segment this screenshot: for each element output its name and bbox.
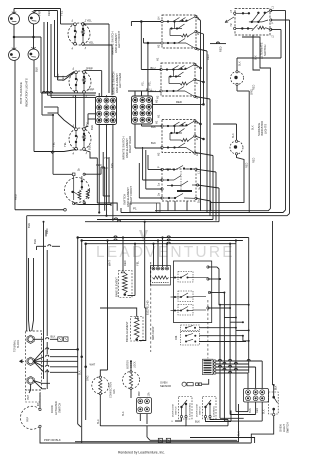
wire S3 area v3 <box>108 157 110 203</box>
wire erc t3 <box>210 292 226 318</box>
wire bake feed <box>122 236 124 270</box>
wire into block1 c <box>51 96 96 98</box>
wire light1 down right <box>237 86 249 213</box>
svg-text:Ø: Ø <box>196 33 200 35</box>
bake element <box>119 270 133 298</box>
label OVEN LIGHT SWITCH <box>278 422 289 433</box>
element switch box LH (left rear) <box>161 15 197 50</box>
wire block1 col3 down <box>112 125 114 221</box>
svg-text:RIGHT REAR: RIGHT REAR <box>128 136 132 153</box>
indicator lamp right-rear hot-surface <box>28 46 39 60</box>
svg-text:RED: RED <box>176 100 182 104</box>
wire box2 P <box>195 80 205 84</box>
wire lamp D down <box>33 60 35 152</box>
label BLK <box>35 67 39 72</box>
wire box1 mid <box>196 32 205 106</box>
wire S4 right top stub <box>84 126 88 128</box>
wire cbr out2 <box>255 402 257 415</box>
wire broil feed right <box>144 221 146 308</box>
junction dots lamp bus <box>13 36 35 39</box>
labels box1 right <box>196 17 200 51</box>
svg-text:BLK: BLK <box>33 239 37 244</box>
wire YEL to S1 <box>61 9 76 25</box>
svg-text:DOOR: DOOR <box>50 405 54 413</box>
spacer <box>138 162 140 164</box>
door lock switch locked <box>203 397 217 420</box>
wire stubs block1 top <box>99 93 106 97</box>
svg-text:RED: RED <box>253 158 256 163</box>
connector block bottom right <box>244 389 269 403</box>
wire left down y441 <box>75 404 239 442</box>
svg-text:RED: RED <box>14 194 18 200</box>
arrow to alternate switch <box>225 17 234 23</box>
svg-text:PRP: PRP <box>89 88 95 92</box>
svg-text:YEL: YEL <box>142 81 145 86</box>
wire box1 L2 down <box>196 49 207 213</box>
wire BLK to box3 bottom <box>135 125 162 149</box>
wire relay feed d <box>166 243 168 267</box>
svg-text:P1: P1 <box>133 207 137 211</box>
labels TAN RED BLK <box>249 408 265 414</box>
svg-text:PRP OR BLK: PRP OR BLK <box>44 438 61 442</box>
spacer6 <box>149 439 151 441</box>
wires block2 top <box>128 91 148 96</box>
wire to box4 b <box>143 147 162 180</box>
wire into door switch <box>38 393 40 408</box>
wire sensor out <box>202 379 209 384</box>
wire box4 L1 down <box>196 169 216 220</box>
wire lamp B top <box>34 10 58 13</box>
wire S4 bottom right <box>84 150 97 158</box>
wire block1 col1 down <box>98 125 100 214</box>
labels YEL S1 <box>87 19 95 45</box>
dashed chassis line left <box>150 262 152 352</box>
connector squares pair bottom <box>158 438 170 442</box>
decorative watermark <box>96 230 235 261</box>
wire rc2 <box>199 335 249 342</box>
wire dls1 b <box>100 418 228 426</box>
wire comb r2 <box>216 362 249 364</box>
labels PRP S2 <box>87 67 94 92</box>
wire fan y372 <box>33 361 77 372</box>
wire lamp common <box>14 37 41 93</box>
dashed connector fragment <box>26 390 40 402</box>
svg-text:LH: LH <box>230 10 233 13</box>
wire bottom long y443 <box>40 439 251 443</box>
wire S2 to block1 <box>84 71 102 97</box>
connector squares pair <box>58 337 68 341</box>
wire bus y237 <box>78 236 249 238</box>
wire lamp columns <box>14 24 34 50</box>
infinite switch right rear S4 <box>69 124 91 155</box>
mesh v1 long <box>220 305 244 419</box>
wires into block1 left <box>88 114 96 124</box>
wire box3 L1 <box>195 121 202 125</box>
wire comb r1 <box>216 359 262 388</box>
wire comb r3 <box>216 365 256 388</box>
labels alt switch left <box>230 10 233 27</box>
svg-text:P: P <box>195 82 199 84</box>
labels YEL S4 <box>52 142 68 147</box>
mesh h3 <box>230 321 244 323</box>
mesh v5 from bus <box>248 238 250 374</box>
svg-text:SENSOR: SENSOR <box>160 384 171 388</box>
wires to S4 top <box>44 107 75 129</box>
svg-text:BLK: BLK <box>195 420 200 424</box>
svg-text:RIGHT FRONT: RIGHT FRONT <box>129 186 133 205</box>
infinite switch left front S1 <box>68 19 90 50</box>
svg-text:BLK: BLK <box>239 61 242 66</box>
label TERMINAL BLOCK <box>14 339 21 352</box>
wire comb r5 <box>216 371 248 388</box>
wire box4 mid down <box>198 185 220 222</box>
wire oven light feed long <box>273 221 275 386</box>
label BLK light2 <box>232 133 235 138</box>
label INFINITE SWITCH AND ELEMENT LEFT REAR <box>112 72 123 95</box>
labels H2 H1 <box>155 99 159 124</box>
wire bundle v3 <box>50 24 52 97</box>
wire to box4 d <box>139 163 162 198</box>
wire block1 col2 down <box>105 125 107 217</box>
svg-text:BLK: BLK <box>122 411 125 416</box>
surface indicator light 2 <box>230 140 243 155</box>
svg-text:RED: RED <box>47 10 51 16</box>
wire dls2 a <box>206 418 232 422</box>
oven light switch <box>269 392 279 416</box>
svg-text:YEL: YEL <box>63 142 67 147</box>
labels box4 left <box>157 166 161 196</box>
svg-text:P: P <box>157 166 161 168</box>
label BLK mdl <box>122 411 125 416</box>
svg-text:LEADVENTURE: LEADVENTURE <box>96 244 235 261</box>
stub y212 left end <box>120 208 122 213</box>
wire fan y349 <box>33 348 77 362</box>
wire WHT down <box>106 239 108 370</box>
svg-text:OVEN: OVEN <box>160 380 167 384</box>
label BLK under block1 <box>90 125 94 130</box>
label WHT 2 <box>90 364 96 367</box>
convection fan motor <box>92 376 109 395</box>
svg-text:FAN: FAN <box>113 389 116 394</box>
label SWITCH AND ELEMENT RIGHT FRONT <box>123 186 134 207</box>
wire to PRP OR BLK <box>40 428 61 442</box>
svg-text:H2: H2 <box>157 44 161 48</box>
wire cbr out1 <box>247 402 249 412</box>
label DOOR ACTUATED SWITCH <box>50 401 61 415</box>
wire bundle low a <box>76 236 81 427</box>
wire step right <box>253 35 260 70</box>
connector block CN1 <box>96 97 117 125</box>
wire to box4 a <box>148 155 162 170</box>
svg-text:BAKE ELEMENT: BAKE ELEMENT <box>115 277 119 297</box>
labels right bus colors <box>206 46 258 130</box>
connector block small 2x2 <box>137 398 152 414</box>
wire right loop A <box>121 11 286 213</box>
labels S3 top <box>78 166 108 171</box>
spacer3 <box>46 236 77 238</box>
svg-text:OVEN: OVEN <box>278 424 282 432</box>
wire erc t4 <box>208 307 231 309</box>
mesh v2 long <box>224 318 262 422</box>
infinite switch right front S3 (dual element) <box>65 173 90 205</box>
wire broil top <box>100 308 137 316</box>
svg-text:RED: RED <box>123 260 127 266</box>
wire S3 bottom pair <box>74 203 111 206</box>
connector block CN2 <box>132 96 153 124</box>
label WHT <box>108 260 112 266</box>
wire relay feed c <box>161 236 163 267</box>
stubs box4 bottom to bus <box>168 201 187 211</box>
infinite switch left rear S2 <box>69 67 91 98</box>
oven sensor <box>160 380 202 387</box>
svg-text:SWITCH: SWITCH <box>176 406 178 415</box>
svg-text:DOOR LOCK: DOOR LOCK <box>173 403 175 417</box>
labels YEL pair <box>142 81 152 86</box>
labels box3 right <box>195 121 199 156</box>
wire to S3 1b <box>53 173 72 175</box>
wire fan y361 <box>33 360 77 362</box>
svg-text:RED: RED <box>206 54 210 60</box>
label YEL <box>136 261 140 266</box>
label BAKE ELEMENT <box>115 277 119 297</box>
wires cb down <box>140 414 147 424</box>
svg-text:LIGHT: LIGHT <box>282 424 286 432</box>
svg-text:X06: X06 <box>175 335 178 340</box>
label BLK right <box>238 431 241 436</box>
wire comb r4 <box>216 368 249 370</box>
svg-text:RED: RED <box>246 163 249 168</box>
svg-text:INDICATOR LIGHTS: INDICATOR LIGHTS <box>25 78 29 107</box>
label BLK left edge <box>27 223 31 228</box>
wires from bottom terminal <box>33 381 50 389</box>
svg-text:YEL: YEL <box>52 142 56 147</box>
svg-text:ACTUATED: ACTUATED <box>54 401 58 415</box>
comb connector <box>203 359 214 375</box>
wire top to box1 <box>131 22 161 27</box>
svg-text:DOOR LOCK: DOOR LOCK <box>197 403 199 417</box>
svg-text:BLK: BLK <box>51 335 56 339</box>
mesh v4 long <box>235 239 248 411</box>
svg-text:BLK: BLK <box>262 409 265 414</box>
label MOTOR DOOR LOCK <box>127 360 137 369</box>
wire WHT to fan <box>100 370 107 377</box>
main terminal block <box>26 331 42 390</box>
svg-text:BLK: BLK <box>232 133 235 138</box>
wire relay feed a <box>152 243 154 267</box>
indicator lamp left-front hot-surface <box>9 11 20 25</box>
svg-text:RED: RED <box>45 228 49 234</box>
ground arrow <box>20 360 25 363</box>
wire dls1 a <box>172 418 182 423</box>
wire v147 to box2 bottom <box>147 42 161 92</box>
svg-text:LH: LH <box>157 17 161 20</box>
svg-text:LIGHTS: LIGHTS <box>264 124 268 134</box>
labels LH H2 box1 <box>157 17 161 48</box>
broil element <box>131 316 144 341</box>
svg-text:BLK: BLK <box>27 223 31 228</box>
label INFINITE SWITCH AND ELEMENT RIGHT REAR <box>122 136 133 160</box>
svg-text:PRP: PRP <box>38 10 42 16</box>
wire fan y356 <box>33 355 77 361</box>
wire BLK y246 <box>37 245 61 250</box>
dashed chassis line right <box>207 300 209 358</box>
svg-text:BLU: BLU <box>97 419 100 424</box>
relay contact boxes below ERC <box>181 325 200 345</box>
wire cbr out3 <box>261 402 263 421</box>
wire ols bottom <box>251 416 273 443</box>
svg-text:Ø: Ø <box>195 138 199 140</box>
indicator lamp left-rear hot-surface <box>29 10 40 24</box>
wire rc3 <box>199 341 246 343</box>
motor door lock <box>123 371 140 390</box>
wire bundle v4 to switch <box>55 20 75 77</box>
wire fan y366 <box>33 361 77 367</box>
spacer4 <box>78 348 101 350</box>
svg-text:BLOCK: BLOCK <box>17 339 20 348</box>
wire bus y221 <box>85 220 219 222</box>
svg-text:YEL: YEL <box>87 19 93 23</box>
arrow mark <box>51 151 54 154</box>
wire bottom y437 <box>190 438 255 444</box>
spacer2 <box>111 204 130 206</box>
svg-text:BLK: BLK <box>238 431 241 436</box>
svg-text:BLK: BLK <box>255 55 258 60</box>
wire long v43 <box>43 221 45 379</box>
wire dls2 up <box>230 411 232 422</box>
wire long v47 segments <box>46 250 48 389</box>
wire erc t1 <box>208 267 221 306</box>
wire S3 area v1 <box>97 158 117 211</box>
labels RED light2 <box>246 158 256 168</box>
labels BLK ORG bundle <box>79 370 90 381</box>
svg-text:LOCK: LOCK <box>134 361 137 368</box>
wire bundle v2 <box>47 22 49 95</box>
wire lampD junction <box>34 114 76 174</box>
label PRP arc <box>27 417 30 422</box>
label RED bake <box>123 260 127 266</box>
wire light2 down <box>211 155 244 202</box>
part number text <box>146 300 155 340</box>
door lock switch unlocked <box>179 397 193 420</box>
label BROIL ELEMENT <box>125 321 129 342</box>
wire light2 top <box>213 124 237 140</box>
label BLK y243 <box>33 239 37 244</box>
mesh h2 <box>224 317 237 319</box>
indicator lamp right-front hot-surface <box>9 47 20 61</box>
wire left stub y115 <box>42 93 54 116</box>
svg-text:BLK: BLK <box>79 370 82 375</box>
wire to box4 c <box>146 150 162 189</box>
labels PRP 13A <box>139 391 151 397</box>
wire block bottom stub <box>29 384 31 393</box>
svg-text:WHT: WHT <box>108 260 112 266</box>
wire erc t2 <box>208 278 221 280</box>
labels box2 left <box>151 57 160 99</box>
svg-text:ORG: ORG <box>87 375 90 381</box>
svg-text:BLU: BLU <box>151 89 156 93</box>
wire dls join <box>214 420 228 426</box>
svg-text:BLK: BLK <box>151 141 156 145</box>
wire RED bus <box>152 100 204 104</box>
svg-text:H1: H1 <box>157 114 161 118</box>
spacer7 <box>81 442 83 444</box>
relay component DBS <box>150 266 170 286</box>
wire bundle low b <box>80 239 83 443</box>
wire box3 L2 down <box>195 153 213 220</box>
label RED top bundle <box>47 10 51 16</box>
svg-text:13A: 13A <box>148 392 151 397</box>
svg-text:PRP: PRP <box>27 417 30 422</box>
svg-text:YEL: YEL <box>136 261 140 266</box>
svg-text:WHT: WHT <box>90 364 96 367</box>
label BLK door sw <box>195 420 200 424</box>
wire mdl bottom <box>130 389 132 398</box>
svg-text:BLK: BLK <box>276 385 278 390</box>
wire dls2 b <box>210 418 214 420</box>
connector P1 box <box>130 203 160 212</box>
comb terminals column <box>214 360 216 374</box>
wire lamp C down RED <box>14 61 18 210</box>
alternate switch box <box>234 9 272 36</box>
wire into block1 b <box>48 94 96 96</box>
svg-text:H1: H1 <box>156 57 160 61</box>
labels RED left of S2 <box>57 74 65 81</box>
wire mdl top <box>130 360 132 371</box>
oven selector switch box <box>161 166 199 202</box>
mesh h4 <box>236 329 250 331</box>
wire broil return <box>139 308 146 341</box>
svg-text:BROIL ELEMENT: BROIL ELEMENT <box>125 321 129 342</box>
wire RED stub <box>45 228 49 236</box>
svg-text:LEFT REAR: LEFT REAR <box>118 73 122 88</box>
svg-text:YEL: YEL <box>89 41 95 45</box>
svg-text:SWITCH: SWITCH <box>263 45 267 56</box>
svg-text:BLK: BLK <box>90 125 94 130</box>
wire right loop C <box>155 37 270 211</box>
wire hump crossing <box>210 42 226 44</box>
wire rc1 <box>199 327 237 329</box>
svg-text:RED: RED <box>253 85 256 90</box>
wire box3 mid <box>195 136 205 140</box>
svg-text:BLK: BLK <box>88 145 92 150</box>
wire bundle v5 to switch <box>58 11 75 81</box>
wire box2 L1 <box>195 65 202 70</box>
surface indicator light 1 <box>231 71 244 86</box>
wire BLK to box3 top <box>142 125 163 127</box>
label CONVECTION FAN <box>109 382 116 398</box>
door actuated switch arc <box>20 406 41 429</box>
label X06 <box>175 335 178 340</box>
wire bus y240 <box>82 239 243 241</box>
wire bake return <box>128 243 137 296</box>
label BLK light1 <box>239 61 242 66</box>
svg-text:SWITCH: SWITCH <box>286 422 290 433</box>
wire box1 L1 to bus <box>196 17 201 211</box>
label BLU block2 <box>146 88 151 92</box>
wire bus y219 <box>97 218 213 220</box>
svg-text:TAN: TAN <box>249 408 252 413</box>
mesh v3 long <box>229 243 256 415</box>
svg-text:BLK: BLK <box>252 125 255 130</box>
wires into block top <box>29 258 34 331</box>
label attribution <box>118 451 165 455</box>
wire bundle low c <box>84 242 87 420</box>
svg-text:H1: H1 <box>155 120 159 124</box>
svg-text:SWITCH: SWITCH <box>57 403 61 413</box>
wire S3 to bus <box>84 167 105 211</box>
wire color labels near S3 <box>96 156 114 168</box>
wire bottom y440 <box>150 439 237 441</box>
